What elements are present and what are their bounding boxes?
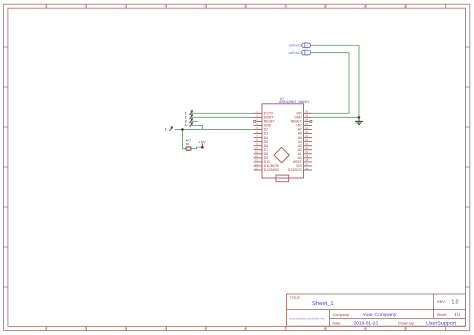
svg-text:5: 5 (204, 327, 206, 331)
svg-text:1: 1 (45, 327, 47, 331)
svg-text:6: 6 (244, 327, 246, 331)
svg-text:2: 2 (84, 4, 86, 8)
svg-text:7: 7 (284, 327, 286, 331)
svg-text:D13/SCK: D13/SCK (288, 168, 303, 172)
svg-text:8: 8 (324, 4, 326, 8)
svg-text:D12/MISO: D12/MISO (264, 168, 280, 172)
svg-text:Date:: Date: (333, 321, 342, 325)
svg-text:ARDUINO_NANO: ARDUINO_NANO (279, 100, 309, 104)
svg-text:4: 4 (164, 327, 166, 331)
svg-text:1: 1 (165, 128, 167, 132)
svg-text:2019-01-23: 2019-01-23 (354, 321, 379, 326)
svg-text:R1: R1 (186, 142, 190, 146)
svg-text:TITLE:: TITLE: (290, 296, 301, 300)
svg-text:wdPad2: wdPad2 (289, 44, 301, 48)
svg-text:Drawn By:: Drawn By: (398, 321, 415, 325)
svg-text:3: 3 (124, 4, 126, 8)
svg-text:1/1: 1/1 (455, 312, 461, 317)
svg-text:6: 6 (244, 4, 246, 8)
svg-text:3: 3 (124, 327, 126, 331)
svg-text:Company:: Company: (333, 313, 350, 317)
svg-text:wdPad1: wdPad1 (289, 51, 301, 55)
svg-text:1.0: 1.0 (452, 300, 459, 306)
svg-text:10: 10 (404, 4, 408, 8)
svg-text:8: 8 (324, 327, 326, 331)
svg-text:4: 4 (164, 4, 166, 8)
svg-text:web.easyeda.com/editor.info: web.easyeda.com/editor.info (289, 317, 325, 321)
svg-text:REV:: REV: (437, 300, 446, 304)
svg-text:9: 9 (364, 327, 366, 331)
svg-text:UserSupport: UserSupport (426, 321, 457, 326)
svg-text:9: 9 (364, 4, 366, 8)
svg-text:Sheet_1: Sheet_1 (312, 301, 334, 307)
svg-text:7: 7 (284, 4, 286, 8)
svg-text:+5V: +5V (198, 139, 206, 144)
svg-text:1: 1 (45, 4, 47, 8)
svg-text:2: 2 (84, 327, 86, 331)
svg-text:Your Company: Your Company (363, 312, 398, 317)
svg-text:10: 10 (404, 327, 408, 331)
svg-text:Sheet:: Sheet: (437, 313, 447, 317)
svg-text:5: 5 (204, 4, 206, 8)
svg-text:4: 4 (185, 124, 187, 128)
